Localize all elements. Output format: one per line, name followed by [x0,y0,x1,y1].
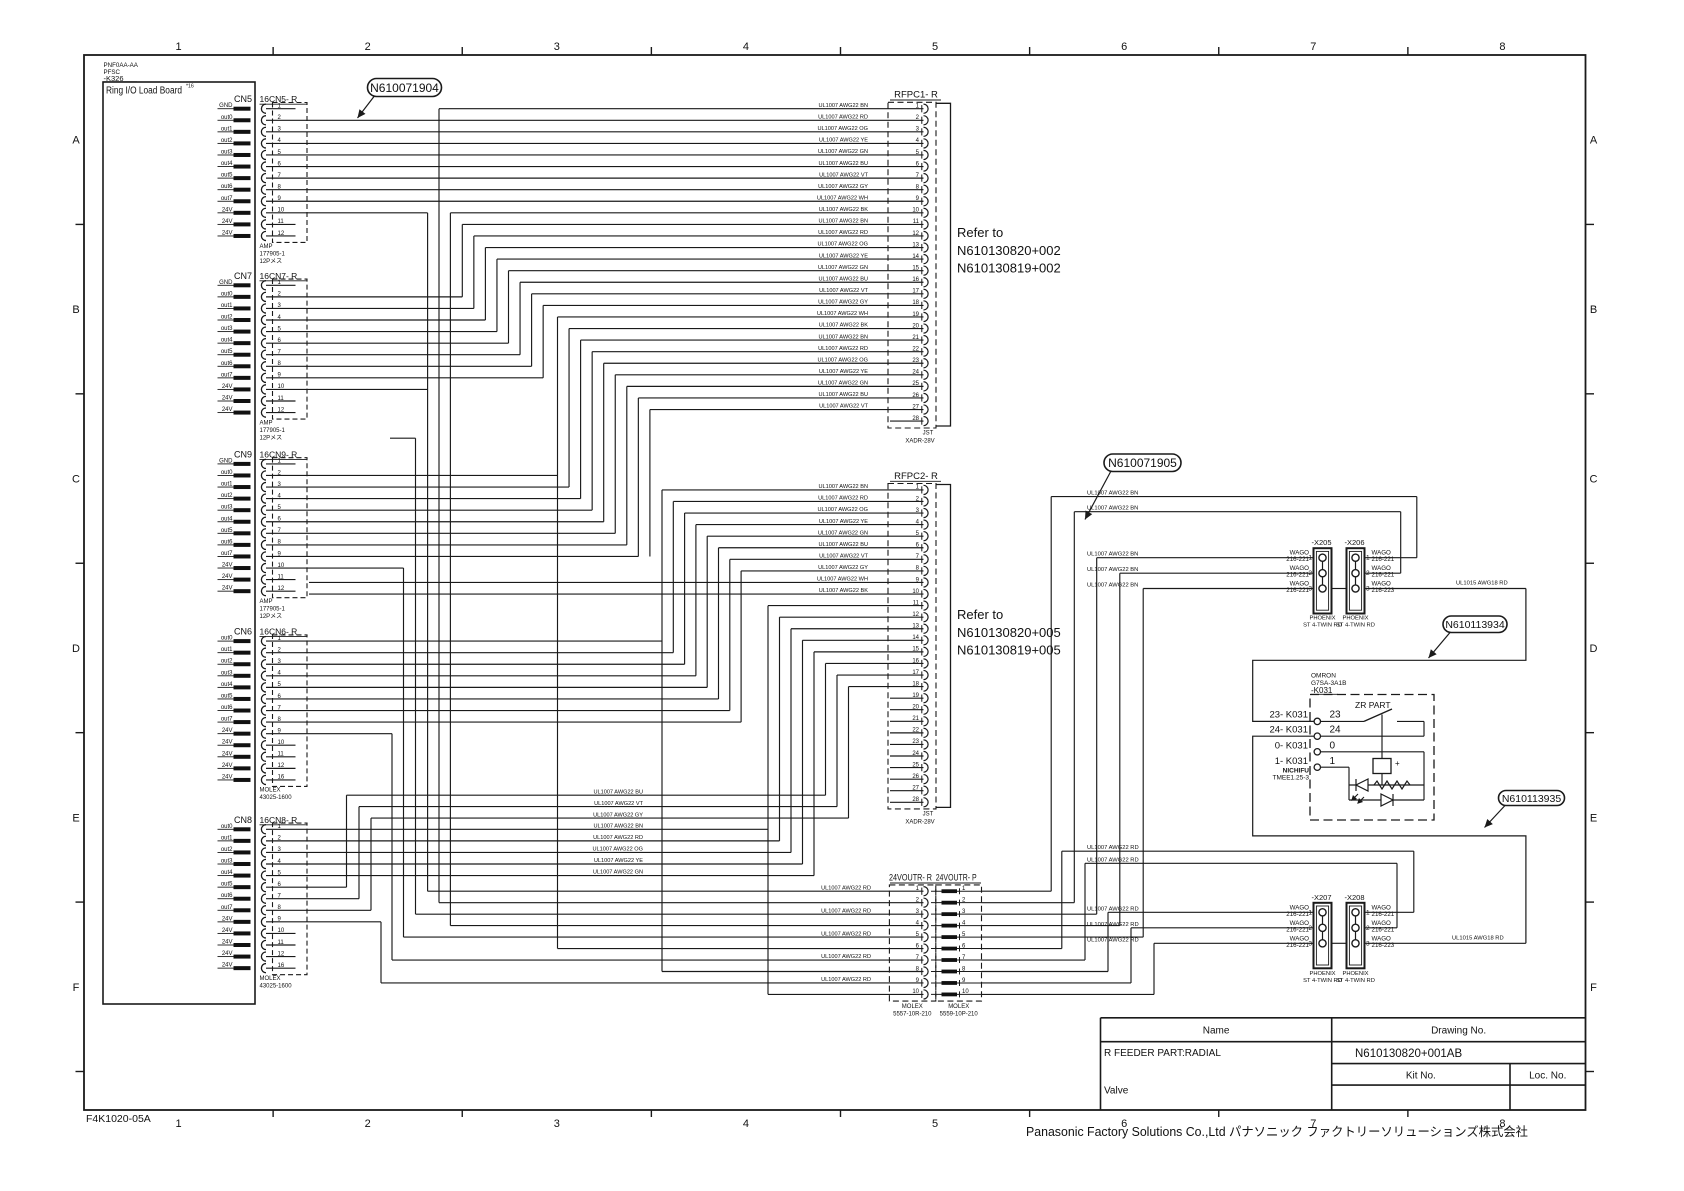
svg-text:out2: out2 [221,315,233,321]
svg-text:MOLEX: MOLEX [902,1004,923,1010]
svg-text:UL1007 AWG22 RD: UL1007 AWG22 RD [1087,922,1139,928]
svg-text:UL1007 AWG22 RD: UL1007 AWG22 RD [1087,857,1139,863]
svg-text:UL1007 AWG22 RD: UL1007 AWG22 RD [821,954,871,960]
svg-text:Loc. No.: Loc. No. [1529,1071,1566,1082]
svg-text:23: 23 [1330,710,1342,721]
svg-text:UL1007 AWG22 GN: UL1007 AWG22 GN [818,530,868,536]
svg-text:10: 10 [962,989,969,995]
svg-text:AMP: AMP [260,244,273,250]
svg-text:UL1007 AWG22 RD: UL1007 AWG22 RD [818,346,868,352]
svg-text:F: F [73,982,80,994]
svg-text:24V: 24V [222,763,233,769]
svg-text:RFPC1- R: RFPC1- R [894,90,938,101]
svg-text:177905-1: 177905-1 [260,428,286,434]
svg-text:PHOENIX: PHOENIX [1342,616,1368,622]
svg-text:AMP: AMP [260,421,273,427]
svg-text:JST: JST [923,812,934,818]
svg-text:-X207: -X207 [1312,893,1332,902]
svg-text:5557-10R-210: 5557-10R-210 [893,1012,932,1018]
svg-text:24V: 24V [222,916,233,922]
svg-text:Refer to: Refer to [957,225,1003,240]
svg-text:UL1007 AWG22 BN: UL1007 AWG22 BN [1087,506,1138,512]
svg-text:C: C [72,474,80,486]
svg-text:out2: out2 [221,493,233,499]
svg-text:UL1007 AWG22 YE: UL1007 AWG22 YE [594,858,643,864]
svg-text:out3: out3 [221,149,233,155]
svg-text:0- K031: 0- K031 [1275,741,1308,752]
svg-text:UL1007 AWG22 VT: UL1007 AWG22 VT [819,404,869,410]
svg-text:out2: out2 [221,659,233,665]
svg-text:24V: 24V [222,219,233,225]
svg-text:F4K1020-05A: F4K1020-05A [86,1113,151,1125]
svg-text:+: + [1395,759,1400,768]
svg-text:out6: out6 [221,705,233,711]
svg-text:NICHIFU: NICHIFU [1283,768,1310,775]
svg-text:UL1007 AWG22 OG: UL1007 AWG22 OG [593,847,643,853]
svg-text:24V: 24V [222,586,233,592]
svg-text:Drawing No.: Drawing No. [1431,1026,1486,1037]
svg-text:ST 4-TWIN RD: ST 4-TWIN RD [1336,978,1375,984]
svg-text:4: 4 [743,41,749,53]
svg-text:UL1007 AWG22 RD: UL1007 AWG22 RD [821,931,871,937]
svg-text:UL1007 AWG22 WH: UL1007 AWG22 WH [817,195,868,201]
svg-text:out7: out7 [221,196,233,202]
svg-text:out7: out7 [221,551,233,557]
svg-text:out7: out7 [221,717,233,723]
svg-text:UL1015 AWG18 RD: UL1015 AWG18 RD [1456,581,1508,587]
svg-text:B: B [72,304,79,316]
svg-text:XADR-28V: XADR-28V [905,439,934,445]
svg-text:out7: out7 [221,372,233,378]
svg-text:MOLEX: MOLEX [948,1004,969,1010]
svg-text:2: 2 [365,41,371,53]
svg-text:4: 4 [743,1118,749,1130]
svg-text:12Pメス: 12Pメス [260,258,283,265]
svg-text:UL1007 AWG22 RD: UL1007 AWG22 RD [818,230,868,236]
svg-text:12Pメス: 12Pメス [260,435,283,442]
svg-text:N610071904: N610071904 [370,81,439,95]
svg-text:out0: out0 [221,636,233,642]
svg-text:out2: out2 [221,847,233,853]
svg-text:PHOENIX: PHOENIX [1309,616,1335,622]
svg-text:UL1007 AWG22 BU: UL1007 AWG22 BU [818,542,868,548]
svg-text:out7: out7 [221,905,233,911]
svg-text:24: 24 [1330,725,1342,736]
svg-text:UL1007 AWG22 BK: UL1007 AWG22 BK [819,588,869,594]
svg-text:out3: out3 [221,859,233,865]
svg-text:N610130820+002: N610130820+002 [957,243,1061,258]
svg-text:1- K031: 1- K031 [1275,756,1308,767]
svg-text:E: E [1590,812,1597,824]
svg-text:UL1007 AWG22 GY: UL1007 AWG22 GY [818,184,868,190]
svg-text:23- K031: 23- K031 [1269,710,1308,721]
svg-text:GND: GND [219,458,233,464]
svg-text:24V: 24V [222,563,233,569]
svg-text:UL1007 AWG22 OG: UL1007 AWG22 OG [818,242,868,248]
svg-text:24V: 24V [222,963,233,969]
svg-text:UL1007 AWG22 BN: UL1007 AWG22 BN [1087,491,1138,497]
svg-text:UL1007 AWG22 GY: UL1007 AWG22 GY [818,565,868,571]
svg-text:43025-1600: 43025-1600 [260,984,293,990]
svg-text:24V: 24V [222,951,233,957]
svg-text:2: 2 [365,1118,371,1130]
svg-text:R FEEDER PART:RADIAL: R FEEDER PART:RADIAL [1104,1048,1221,1059]
svg-text:out0: out0 [221,470,233,476]
svg-text:1: 1 [1330,756,1336,767]
svg-text:out1: out1 [221,835,233,841]
svg-text:24V: 24V [222,751,233,757]
svg-text:24V: 24V [222,207,233,213]
svg-text:1: 1 [176,1118,182,1130]
svg-text:UL1007 AWG22 BN: UL1007 AWG22 BN [818,219,868,225]
svg-text:Valve: Valve [1104,1086,1129,1097]
svg-text:CN9: CN9 [234,449,252,459]
svg-text:E: E [72,812,79,824]
svg-text:UL1007 AWG22 BN: UL1007 AWG22 BN [818,334,868,340]
svg-text:8: 8 [1499,41,1505,53]
svg-text:UL1007 AWG22 RD: UL1007 AWG22 RD [1087,906,1139,912]
svg-text:out1: out1 [221,126,233,132]
svg-text:UL1007 AWG22 OG: UL1007 AWG22 OG [818,357,868,363]
svg-text:UL1007 AWG22 RD: UL1007 AWG22 RD [821,908,871,914]
svg-text:out0: out0 [221,291,233,297]
svg-text:24V: 24V [222,396,233,402]
svg-text:5: 5 [932,41,938,53]
svg-text:out0: out0 [221,115,233,121]
svg-text:UL1007 AWG22 YE: UL1007 AWG22 YE [819,369,868,375]
svg-text:N610130819+002: N610130819+002 [957,261,1061,276]
svg-text:UL1007 AWG22 BU: UL1007 AWG22 BU [818,161,868,167]
svg-text:UL1007 AWG22 WH: UL1007 AWG22 WH [817,311,868,317]
svg-text:N610113935: N610113935 [1502,793,1562,805]
svg-text:N610130819+005: N610130819+005 [957,643,1061,658]
svg-text:out5: out5 [221,349,233,355]
svg-text:F: F [1590,982,1597,994]
svg-text:GND: GND [219,280,233,286]
svg-text:-X205: -X205 [1312,538,1332,547]
svg-text:C: C [1590,474,1598,486]
svg-text:out1: out1 [221,647,233,653]
svg-text:24V: 24V [222,574,233,580]
svg-text:RFPC2- R: RFPC2- R [894,471,938,482]
svg-text:UL1007 AWG22 BK: UL1007 AWG22 BK [819,207,869,213]
svg-text:UL1007 AWG22 WH: UL1007 AWG22 WH [817,577,868,583]
svg-text:7: 7 [1310,41,1316,53]
svg-text:out3: out3 [221,326,233,332]
svg-text:Refer to: Refer to [957,607,1003,622]
svg-text:out5: out5 [221,693,233,699]
svg-text:PHOENIX: PHOENIX [1309,971,1335,977]
svg-text:UL1007 AWG22 BN: UL1007 AWG22 BN [818,103,868,109]
svg-text:A: A [1590,135,1598,147]
svg-text:UL1007 AWG22 VT: UL1007 AWG22 VT [819,554,869,560]
svg-text:43025-1600: 43025-1600 [260,795,293,801]
svg-text:UL1007 AWG22 BN: UL1007 AWG22 BN [593,824,643,830]
svg-text:out1: out1 [221,303,233,309]
svg-text:3: 3 [554,1118,560,1130]
svg-text:0: 0 [1330,741,1336,752]
svg-text:JST: JST [923,431,934,437]
svg-text:ZR PART: ZR PART [1355,700,1391,710]
svg-text:24VOUTR- P: 24VOUTR- P [936,873,977,883]
svg-text:UL1007 AWG22 VT: UL1007 AWG22 VT [819,288,869,294]
svg-text:24VOUTR- R: 24VOUTR- R [889,873,932,883]
svg-text:177905-1: 177905-1 [260,607,286,613]
svg-text:24V: 24V [222,728,233,734]
svg-text:5559-10P-210: 5559-10P-210 [940,1012,979,1018]
svg-text:UL1007 AWG22 BN: UL1007 AWG22 BN [1087,583,1138,589]
svg-text:*16: *16 [186,84,194,90]
svg-text:OMRON: OMRON [1311,673,1336,680]
svg-text:UL1007 AWG22 YE: UL1007 AWG22 YE [819,138,868,144]
svg-text:UL1007 AWG22 BU: UL1007 AWG22 BU [818,392,868,398]
svg-text:24V: 24V [222,928,233,934]
svg-text:out6: out6 [221,893,233,899]
svg-text:12Pメス: 12Pメス [260,613,283,620]
svg-text:UL1007 AWG22 GY: UL1007 AWG22 GY [818,300,868,306]
svg-text:UL1007 AWG22 BN: UL1007 AWG22 BN [1087,567,1138,573]
svg-text:out6: out6 [221,539,233,545]
svg-text:-K031: -K031 [1311,686,1333,695]
svg-text:GND: GND [219,103,233,109]
svg-text:UL1007 AWG22 GN: UL1007 AWG22 GN [818,381,868,387]
svg-text:Panasonic Factory Solutions Co: Panasonic Factory Solutions Co.,Ltd パナソニ… [1026,1124,1528,1139]
svg-text:UL1007 AWG22 YE: UL1007 AWG22 YE [819,253,868,259]
svg-text:UL1007 AWG22 RD: UL1007 AWG22 RD [821,977,871,983]
svg-text:UL1007 AWG22 BN: UL1007 AWG22 BN [1087,552,1138,558]
svg-text:UL1007 AWG22 GN: UL1007 AWG22 GN [593,870,643,876]
svg-text:N610071905: N610071905 [1108,456,1177,470]
svg-text:1: 1 [176,41,182,53]
svg-text:out4: out4 [221,682,233,688]
svg-text:24- K031: 24- K031 [1269,725,1308,736]
svg-text:-X208: -X208 [1345,893,1365,902]
svg-text:D: D [72,643,80,655]
svg-text:D: D [1590,643,1598,655]
svg-text:TMEE1.25-3: TMEE1.25-3 [1273,775,1310,782]
svg-text:UL1007 AWG22 RD: UL1007 AWG22 RD [818,496,868,502]
svg-text:XADR-28V: XADR-28V [905,820,934,826]
svg-text:UL1007 AWG22 RD: UL1007 AWG22 RD [1087,937,1139,943]
svg-text:MOLEX: MOLEX [260,788,281,794]
svg-text:N610130820+001AB: N610130820+001AB [1355,1048,1462,1060]
svg-text:24V: 24V [222,407,233,413]
svg-text:3: 3 [554,41,560,53]
svg-text:N610130820+005: N610130820+005 [957,625,1061,640]
svg-text:UL1007 AWG22 VT: UL1007 AWG22 VT [819,172,869,178]
svg-text:CN6: CN6 [234,627,252,637]
svg-text:24V: 24V [222,230,233,236]
svg-text:UL1007 AWG22 RD: UL1007 AWG22 RD [1087,845,1139,851]
svg-text:out3: out3 [221,670,233,676]
svg-text:UL1007 AWG22 RD: UL1007 AWG22 RD [818,114,868,120]
svg-text:ST 4-TWIN RD: ST 4-TWIN RD [1336,623,1375,629]
svg-text:N610113934: N610113934 [1445,619,1505,631]
svg-text:6: 6 [1121,41,1127,53]
svg-text:out6: out6 [221,184,233,190]
svg-text:24V: 24V [222,940,233,946]
svg-text:UL1007 AWG22 BU: UL1007 AWG22 BU [593,789,643,795]
svg-text:24V: 24V [222,740,233,746]
svg-text:MOLEX: MOLEX [260,976,281,982]
svg-text:PHOENIX: PHOENIX [1342,971,1368,977]
svg-text:out1: out1 [221,482,233,488]
svg-text:5: 5 [932,1118,938,1130]
svg-text:UL1007 AWG22 GN: UL1007 AWG22 GN [818,149,868,155]
svg-text:A: A [72,135,80,147]
svg-text:24V: 24V [222,774,233,780]
svg-text:UL1007 AWG22 RD: UL1007 AWG22 RD [821,885,871,891]
svg-text:CN5: CN5 [234,94,252,104]
svg-text:UL1007 AWG22 GY: UL1007 AWG22 GY [593,812,643,818]
svg-text:UL1007 AWG22 YE: UL1007 AWG22 YE [819,519,868,525]
svg-text:CN7: CN7 [234,271,252,281]
svg-text:UL1007 AWG22 OG: UL1007 AWG22 OG [818,507,868,513]
svg-text:Name: Name [1203,1026,1230,1037]
svg-text:out0: out0 [221,824,233,830]
svg-text:UL1007 AWG22 GN: UL1007 AWG22 GN [818,265,868,271]
svg-text:UL1007 AWG22 BN: UL1007 AWG22 BN [818,484,868,490]
svg-text:UL1007 AWG22 OG: UL1007 AWG22 OG [818,126,868,132]
svg-text:out4: out4 [221,516,233,522]
svg-text:CN8: CN8 [234,815,252,825]
svg-text:UL1007 AWG22 BK: UL1007 AWG22 BK [819,323,869,329]
svg-text:24V: 24V [222,384,233,390]
svg-text:out4: out4 [221,338,233,344]
svg-text:UL1007 AWG22 VT: UL1007 AWG22 VT [594,801,644,807]
svg-text:B: B [1590,304,1597,316]
svg-text:out3: out3 [221,505,233,511]
svg-text:-X206: -X206 [1345,538,1365,547]
svg-text:UL1007 AWG22 RD: UL1007 AWG22 RD [593,835,643,841]
svg-text:PNF0AA-AA: PNF0AA-AA [104,62,139,69]
svg-text:out4: out4 [221,870,233,876]
svg-text:Kit No.: Kit No. [1406,1071,1436,1082]
svg-text:out4: out4 [221,161,233,167]
svg-text:out5: out5 [221,173,233,179]
svg-text:177905-1: 177905-1 [260,252,286,258]
svg-text:UL1015 AWG18 RD: UL1015 AWG18 RD [1452,935,1504,941]
svg-text:out5: out5 [221,882,233,888]
svg-text:UL1007 AWG22 BU: UL1007 AWG22 BU [818,276,868,282]
svg-text:Ring I/O Load Board: Ring I/O Load Board [106,86,182,97]
svg-text:out6: out6 [221,361,233,367]
svg-text:out2: out2 [221,138,233,144]
svg-text:out5: out5 [221,528,233,534]
svg-text:AMP: AMP [260,599,273,605]
